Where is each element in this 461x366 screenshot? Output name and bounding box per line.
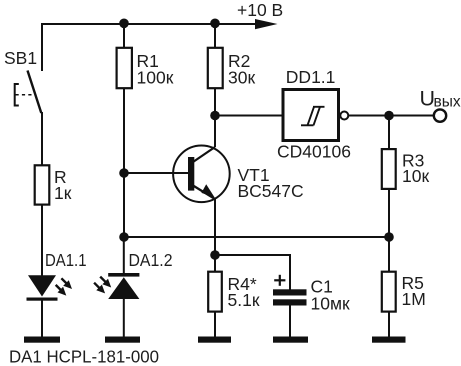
wire emitter down [214,198,216,255]
wire DA1.1 to ground [41,299,43,337]
junction dot base node [119,168,129,178]
label R3 10к [402,151,429,187]
svg-text:1М: 1М [402,289,426,309]
resistor R [35,165,50,204]
ground under DA1.1 [24,337,60,343]
svg-text:вых: вых [434,94,461,111]
svg-text:+10 В: +10 В [237,0,283,20]
wire switch upper lead [41,23,43,71]
svg-text:DA1.1: DA1.1 [45,250,87,270]
wire R4 to ground [214,311,216,337]
svg-text:BC547C: BC547C [238,181,304,201]
label DA1.1 [45,250,87,270]
wire R3 to mid rail [388,189,390,237]
ground under C1 [273,337,308,343]
wire switch to R [41,112,43,165]
wire R2 to input node [214,89,216,116]
label +10 В [237,0,283,20]
capacitor C1 [273,275,307,306]
schmitt trigger DD1.1 [283,90,348,141]
junction dot mid rail left [119,232,129,242]
svg-text:DA1 HCPL-181-000: DA1 HCPL-181-000 [9,346,159,366]
wire top +10V rail [41,23,262,25]
label R1 100к [137,51,174,87]
wire DD output to terminal [348,115,433,117]
wire emitter node to R4 [214,255,216,272]
ground under R5 [372,337,406,343]
output terminal circle [434,109,446,121]
power arrow +10V [255,19,278,29]
wire base [124,172,188,174]
label R2 30к [228,51,255,87]
label DA1.2 [129,250,173,270]
wire output node to R3 [388,116,390,150]
wire R to DA1.1 [41,205,43,276]
wire R5 to ground [388,311,390,337]
ground under DA1.2 [105,337,140,343]
wire R1 to base node [123,89,125,174]
junction dot mid rail right [384,232,394,242]
svg-text:DD1.1: DD1.1 [286,67,336,87]
LED DA1.1 [27,275,73,300]
junction dot rail/R1 [119,19,129,29]
wire mid rail to R5 [388,237,390,272]
ground under R4 [198,337,231,343]
label DD1.1 [286,67,336,87]
svg-text:SB1: SB1 [4,48,37,68]
wire base node to mid rail node [123,173,125,237]
svg-text:DA1.2: DA1.2 [129,250,173,270]
label DA1 HCPL-181-000 [9,346,159,366]
svg-text:1к: 1к [54,183,72,203]
transistor VT1 [173,146,230,203]
junction dot emitter node [210,250,220,260]
switch SB1 blade [28,71,42,114]
switch SB1 pushbutton actuator bracket [15,84,33,106]
label R value 1к [54,167,72,203]
wire DA1.2 to ground [123,299,125,337]
label C1 10мк [311,277,350,314]
junction dot output node [384,111,394,121]
svg-text:10мк: 10мк [311,294,350,314]
resistor R1 [117,48,132,88]
label CD40106 [277,141,351,161]
junction dot DD input node [210,111,220,121]
label Uвых [420,87,461,111]
label SB1 [4,48,37,68]
resistor R2 [208,48,223,88]
wire rail to R1 [123,24,125,49]
svg-text:100к: 100к [137,67,174,87]
svg-text:30к: 30к [228,67,255,87]
label R5 1M [402,273,426,309]
resistor R4 [208,272,222,312]
svg-text:CD40106: CD40106 [277,141,351,161]
resistor R5 [382,272,396,312]
svg-text:10к: 10к [402,166,429,186]
photodiode DA1.2 [94,273,139,299]
junction dot rail/R2 [210,19,220,29]
wire input node to collector [214,116,216,148]
wire C1 to ground [289,305,291,337]
svg-text:5.1к: 5.1к [228,290,260,310]
resistor R3 [382,149,396,189]
label VT1 BC547C [238,165,304,201]
wire emitter node to C1 [215,255,290,290]
wire node to DA1.2 [123,237,125,274]
wire mid rail [124,236,389,238]
wire rail to R2 [214,24,216,49]
label R4* 5.1к [228,274,260,310]
wire input node to DD1.1 [215,115,282,117]
